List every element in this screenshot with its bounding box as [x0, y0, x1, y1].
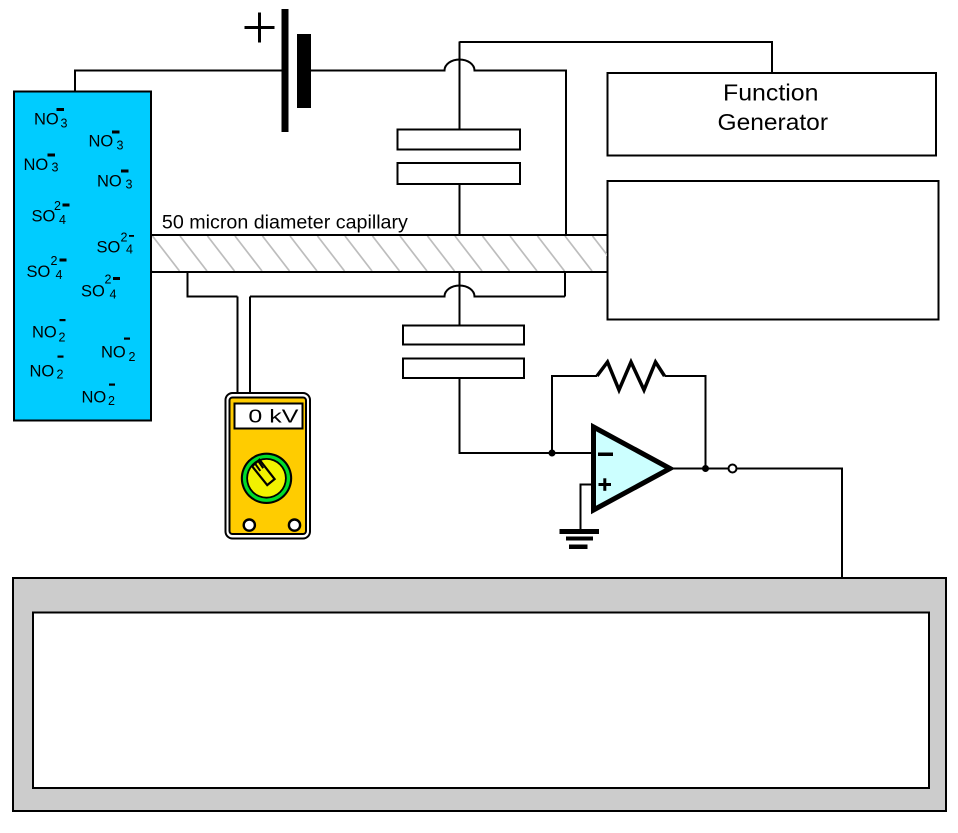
svg-text:4: 4 — [56, 268, 63, 282]
wire vertical to capillary inlet — [565, 71, 567, 236]
svg-text:NO: NO — [97, 173, 122, 191]
node B junction dot — [702, 465, 709, 472]
svg-text:2: 2 — [57, 368, 64, 382]
upper electrode plate E2 — [398, 163, 521, 184]
wire plus input to ground — [581, 485, 594, 530]
ion NO2- a — [32, 319, 66, 345]
wire plate E2 to capillary — [459, 184, 461, 235]
svg-text:2: 2 — [108, 394, 115, 408]
svg-text:Generator: Generator — [718, 109, 829, 135]
wire from reservoir to battery — [75, 71, 282, 93]
resistor R1 — [597, 362, 665, 390]
ion NO3- c — [24, 154, 59, 175]
op-amp minus input label — [598, 453, 613, 457]
upper electrode plate E1 — [398, 130, 521, 150]
wire top electrode drive — [460, 42, 773, 130]
svg-text:SO: SO — [81, 283, 105, 301]
wire capillary outlet left tap — [188, 272, 238, 297]
battery plus label — [245, 13, 275, 43]
feedback wire down — [665, 376, 706, 469]
capillary tube hatched body — [125, 236, 620, 271]
wire multimeter to HV return with hop — [250, 286, 565, 297]
svg-text:NO: NO — [30, 363, 55, 381]
function generator U2 box — [608, 73, 937, 156]
svg-text:SO: SO — [27, 263, 51, 281]
battery B1 positive plate — [282, 9, 289, 132]
lower electrode plate E3 — [403, 326, 524, 345]
ion NO2- d — [82, 384, 116, 409]
svg-text:0 kV: 0 kV — [248, 406, 299, 427]
ion NO3- a — [34, 108, 68, 131]
svg-text:NO: NO — [32, 324, 57, 342]
lower electrode plate E4 — [403, 359, 524, 379]
svg-text:2: 2 — [105, 273, 112, 287]
ground symbol — [560, 529, 600, 549]
wire up to capillary outlet — [564, 272, 566, 297]
svg-text:3: 3 — [117, 139, 124, 153]
multimeter right lead — [249, 297, 251, 395]
ion NO3- b — [89, 131, 124, 153]
wire plate E4 to op-amp input — [460, 378, 594, 453]
ion NO2- b — [101, 338, 136, 365]
multimeter M1 body — [226, 393, 311, 539]
reservoir box (cyan electrolyte vial) — [14, 92, 151, 421]
ion SO4 2- c — [27, 254, 67, 282]
svg-text:4: 4 — [59, 213, 66, 227]
multimeter dial knob — [241, 453, 292, 504]
wire output to recorder — [737, 469, 843, 579]
wire battery to HV node with hop — [311, 60, 567, 71]
capillary bottom wall — [151, 271, 608, 273]
recorder screen (white) — [33, 613, 929, 789]
multimeter left lead — [237, 297, 239, 395]
svg-text:2: 2 — [129, 350, 136, 364]
svg-text:SO: SO — [97, 239, 121, 257]
output terminal circle — [729, 465, 737, 473]
svg-text:2: 2 — [54, 199, 61, 213]
ion NO3- d — [97, 170, 133, 192]
svg-text:3: 3 — [126, 178, 133, 192]
recorder chassis (gray) — [13, 578, 946, 811]
node A junction dot — [549, 450, 556, 457]
ion SO4 2- b — [97, 231, 135, 257]
svg-text:2: 2 — [51, 254, 58, 268]
multimeter terminal right — [289, 520, 300, 531]
svg-text:50 micron diameter capillary: 50 micron diameter capillary — [162, 213, 409, 234]
svg-text:Function: Function — [723, 80, 819, 106]
svg-text:4: 4 — [110, 288, 117, 302]
svg-text:NO: NO — [89, 133, 114, 151]
svg-text:NO: NO — [82, 389, 107, 407]
multimeter display 0 kV — [235, 404, 303, 429]
ion SO4 2- d — [81, 273, 120, 302]
detector box — [608, 181, 939, 320]
capillary top wall — [151, 234, 608, 236]
output wire — [670, 468, 729, 470]
ion NO2- c — [30, 356, 64, 382]
ion SO4 2- a — [32, 199, 70, 227]
op-amp U1 — [594, 427, 671, 510]
svg-text:NO: NO — [34, 111, 59, 129]
wire capillary to lower plate — [459, 272, 461, 326]
svg-text:NO: NO — [24, 156, 49, 174]
svg-text:NO: NO — [101, 344, 126, 362]
feedback wire up — [552, 376, 597, 453]
op-amp plus input label — [599, 478, 612, 491]
svg-text:2: 2 — [59, 331, 66, 345]
battery B1 negative plate — [297, 34, 311, 108]
multimeter terminal left — [244, 520, 255, 531]
svg-text:4: 4 — [126, 243, 133, 257]
svg-text:3: 3 — [61, 117, 68, 131]
svg-text:3: 3 — [52, 161, 59, 175]
svg-text:SO: SO — [32, 208, 56, 226]
